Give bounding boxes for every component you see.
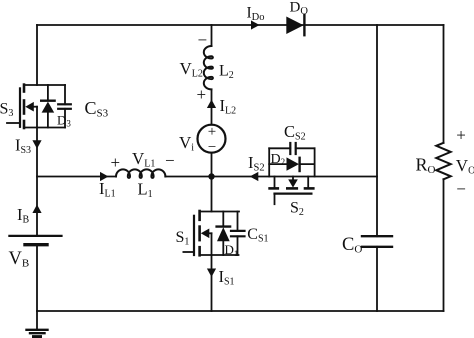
svg-text:CO: CO xyxy=(342,235,362,256)
current arrow I_S1 xyxy=(207,269,216,278)
svg-text:+: + xyxy=(208,124,216,140)
transistor S3 source connector xyxy=(36,107,38,128)
transistor S3 box top xyxy=(24,84,65,86)
svg-text:+: + xyxy=(111,153,121,172)
wire left rail middle xyxy=(36,128,38,236)
transistor S3 gate bar xyxy=(19,88,21,126)
wire middle horizontal right xyxy=(212,176,378,178)
capacitor C_S1 xyxy=(231,212,245,256)
svg-text:IDo: IDo xyxy=(247,4,265,23)
wire left rail upper xyxy=(36,25,38,85)
wire middle horizontal left xyxy=(37,176,116,178)
svg-text:VL2: VL2 xyxy=(180,59,203,80)
capacitor C_S3 xyxy=(58,85,71,128)
svg-text:CS3: CS3 xyxy=(85,98,109,120)
battery V_B plate long xyxy=(9,235,61,237)
svg-text:D1: D1 xyxy=(225,242,239,258)
source V_i circle xyxy=(198,125,226,153)
svg-text:S2: S2 xyxy=(290,200,304,219)
svg-text:DO: DO xyxy=(290,0,309,17)
wire Vi to junction xyxy=(211,153,213,177)
svg-text:IL2: IL2 xyxy=(220,96,237,117)
inductor L2 xyxy=(204,46,213,89)
transistor S2 arrow xyxy=(288,177,298,188)
transistor S1 gate lead xyxy=(183,251,194,253)
current arrow I_B xyxy=(32,205,41,214)
svg-text:+: + xyxy=(197,85,207,104)
svg-text:L1: L1 xyxy=(138,180,153,201)
transistor S3 arrow xyxy=(25,102,37,112)
wire right rail upper xyxy=(443,25,445,143)
wire Co rail upper xyxy=(376,25,378,236)
diode D3 xyxy=(41,85,54,128)
svg-text:+: + xyxy=(456,126,466,145)
wire middle horizontal center xyxy=(165,176,211,178)
diode D2 xyxy=(269,157,314,171)
transistor S2 gate lead xyxy=(274,194,276,205)
svg-text:Vi: Vi xyxy=(179,133,194,154)
battery V_B plate short xyxy=(25,243,47,246)
current arrow I_L2 xyxy=(207,100,216,109)
wire S1 branch lower xyxy=(211,255,213,311)
wire bottom rail xyxy=(37,310,444,312)
svg-text:D3: D3 xyxy=(57,113,71,129)
resistor Ro xyxy=(436,143,450,180)
svg-text:CS2: CS2 xyxy=(284,122,306,143)
svg-text:VL1: VL1 xyxy=(132,149,155,170)
current arrow I_S2 xyxy=(250,172,258,181)
svg-text:VB: VB xyxy=(9,249,30,270)
svg-text:CS1: CS1 xyxy=(247,226,268,245)
transistor S1 box top xyxy=(199,211,239,213)
wire L2 branch top xyxy=(211,25,213,46)
diode D1 xyxy=(217,212,231,256)
svg-text:S3: S3 xyxy=(0,101,13,120)
transistor S2 channel xyxy=(270,187,314,190)
wire top rail xyxy=(37,24,444,26)
transistor S2 box left vertical xyxy=(268,148,270,176)
svg-text:L2: L2 xyxy=(219,62,234,81)
transistor S1 box bottom xyxy=(200,254,239,256)
transistor S2 box top right xyxy=(296,147,315,149)
wire S1 branch upper xyxy=(211,177,213,212)
transistor S1 source connector xyxy=(211,233,213,255)
transistor S1 channel xyxy=(198,211,201,255)
svg-text:IS1: IS1 xyxy=(219,267,235,288)
svg-text:−: − xyxy=(208,140,216,156)
transistor S3 gate lead xyxy=(7,122,20,124)
svg-text:VO: VO xyxy=(456,156,474,177)
svg-text:S1: S1 xyxy=(176,229,190,248)
transistor S2 left stub xyxy=(274,177,276,189)
wire L2 to Vi xyxy=(211,90,213,125)
current arrow I_L1 xyxy=(100,172,109,181)
wire Co rail lower xyxy=(376,247,378,311)
svg-text:−: − xyxy=(165,151,175,170)
svg-text:−: − xyxy=(198,30,208,49)
transistor S2 right stub xyxy=(307,177,309,189)
transistor S3 channel xyxy=(23,85,26,128)
inductor L1 xyxy=(116,169,165,178)
svg-text:IB: IB xyxy=(17,205,30,226)
capacitor C_S2 xyxy=(290,143,295,154)
wire right rail lower xyxy=(443,179,445,311)
capacitor Co xyxy=(362,236,392,247)
transistor S3 box bottom xyxy=(24,127,65,129)
diode Do xyxy=(286,15,304,35)
junction node xyxy=(208,173,214,179)
transistor S2 box right vertical xyxy=(314,148,316,176)
svg-text:RO: RO xyxy=(416,155,436,177)
svg-text:−: − xyxy=(456,179,466,198)
transistor S1 gate bar xyxy=(193,216,195,255)
ground xyxy=(27,311,48,337)
svg-text:D2: D2 xyxy=(271,152,286,167)
svg-text:IL1: IL1 xyxy=(99,179,116,200)
transistor S2 gate bar xyxy=(275,193,312,195)
transistor S1 arrow xyxy=(201,229,212,239)
transistor S2 box top left xyxy=(269,147,290,149)
current arrow I_Do xyxy=(251,20,260,29)
current arrow I_S3 xyxy=(32,140,41,149)
svg-text:IS2: IS2 xyxy=(248,153,265,174)
svg-text:IS3: IS3 xyxy=(15,136,31,157)
wire left rail lower xyxy=(36,246,38,311)
